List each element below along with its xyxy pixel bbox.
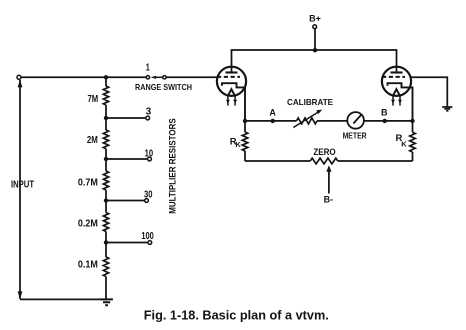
svg-text:B+: B+ bbox=[309, 14, 321, 24]
svg-text:30: 30 bbox=[144, 190, 153, 201]
svg-text:RANGE SWITCH: RANGE SWITCH bbox=[135, 82, 192, 92]
svg-text:INPUT: INPUT bbox=[11, 179, 34, 190]
svg-text:2M: 2M bbox=[87, 135, 98, 146]
svg-text:10: 10 bbox=[145, 148, 154, 159]
svg-text:K: K bbox=[235, 140, 241, 149]
svg-text:ZERO: ZERO bbox=[313, 147, 335, 157]
svg-text:0.2M: 0.2M bbox=[78, 219, 98, 230]
svg-text:1: 1 bbox=[146, 61, 150, 72]
svg-text:CALIBRATE: CALIBRATE bbox=[287, 97, 333, 107]
svg-text:K: K bbox=[401, 140, 407, 149]
svg-text:MULTIPLIER RESISTORS: MULTIPLIER RESISTORS bbox=[168, 118, 178, 214]
svg-text:A: A bbox=[269, 108, 276, 118]
svg-text:3: 3 bbox=[146, 106, 152, 117]
svg-text:B: B bbox=[381, 108, 388, 118]
svg-text:100: 100 bbox=[141, 231, 154, 242]
svg-text:7M: 7M bbox=[88, 94, 99, 105]
svg-text:0.7M: 0.7M bbox=[78, 178, 98, 189]
svg-text:Fig. 1-18. Basic plan of a vtv: Fig. 1-18. Basic plan of a vtvm. bbox=[144, 307, 329, 322]
svg-text:METER: METER bbox=[343, 131, 367, 141]
svg-text:B-: B- bbox=[324, 195, 334, 205]
svg-text:0.1M: 0.1M bbox=[78, 260, 98, 271]
